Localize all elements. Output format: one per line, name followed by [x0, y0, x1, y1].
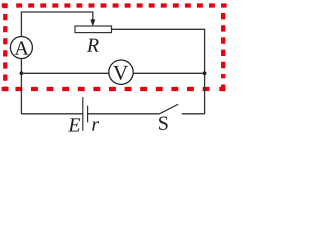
node right junction — [203, 71, 207, 75]
svg-text:V: V — [113, 61, 128, 85]
wire: voltmeter row left segment — [21, 72, 109, 74]
svg-text:r: r — [91, 114, 99, 136]
wire: bottom row between battery and switch — [88, 113, 160, 115]
wire: resistor right to top-right corner down to bottom-right — [112, 29, 205, 114]
wire: bottom row left of battery — [21, 113, 82, 115]
wire: top-left corner from ammeter up and right to rheostat wiper — [21, 12, 92, 37]
top edge dashes — [16, 3, 226, 7]
rheostat wiper arrowhead — [90, 19, 95, 26]
left column dashes — [3, 14, 7, 81]
voltmeter V1 circle — [109, 60, 133, 84]
bottom edge dashes — [15, 87, 210, 91]
wire: left vertical below ammeter to bottom-left corner — [20, 59, 22, 115]
switch S blade — [160, 104, 179, 114]
svg-text:E: E — [67, 114, 80, 136]
ammeter A1 circle — [10, 37, 32, 59]
wire: switch right contact to bottom-right corner — [182, 113, 205, 115]
dashed red boundary box — [2, 3, 227, 91]
wire: voltmeter row right segment — [133, 72, 204, 74]
svg-text:S: S — [158, 113, 169, 135]
svg-text:R: R — [86, 35, 99, 57]
battery cell E: long plate — [82, 97, 84, 131]
right column dashes — [221, 13, 225, 78]
left column corner stub — [3, 3, 7, 8]
bottom edge left corner dash — [2, 87, 9, 91]
node left junction — [20, 71, 24, 75]
right bottom corner stub — [221, 85, 225, 92]
battery cell E: short plate — [87, 106, 89, 123]
bottom edge right corner dash — [219, 87, 225, 91]
svg-text:A: A — [14, 38, 29, 60]
top edge corner dash — [2, 3, 8, 7]
left bottom corner stub — [3, 87, 7, 92]
resistor R (rheostat body) — [75, 26, 112, 33]
